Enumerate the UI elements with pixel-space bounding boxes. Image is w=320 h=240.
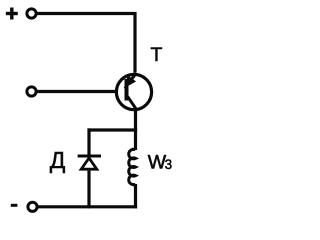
wire: base terminal to transistor (36, 90, 117, 93)
minus sign (- supply label) (11, 204, 18, 207)
diode branch upper wire (87, 128, 90, 156)
transistor base bar (125, 79, 129, 101)
transistor T circle (116, 74, 151, 109)
wire: horizontal junction bar (top of diode/coil pair) (88, 128, 138, 131)
coil W3 winding (4 left-bulging arcs) (129, 149, 136, 184)
plus sign (+ supply label) (6, 8, 18, 20)
diode branch lower wire (87, 171, 90, 209)
svg-text:3: 3 (165, 157, 173, 172)
svg-text:T: T (151, 44, 163, 66)
transistor emitter line with arrow (PNP, emitter up) (128, 73, 137, 84)
wire: collector down to junction node (134, 108, 137, 132)
coil W3 upper wire (134, 130, 137, 150)
svg-text:Д: Д (50, 147, 66, 173)
wire: + terminal to top-right corner then down to transistor emitter (36, 14, 135, 73)
transistor collector line (128, 97, 136, 109)
terminal circle (+ input) (27, 9, 36, 18)
coil W3 lower wire (134, 184, 137, 208)
terminal circle (- input) (28, 202, 37, 211)
terminal circle (base input) (27, 87, 36, 96)
diode Д triangle (anode, pointing up) (81, 158, 97, 169)
wire: - terminal to coil bottom (37, 205, 137, 208)
diode Д cathode bar (78, 155, 101, 158)
